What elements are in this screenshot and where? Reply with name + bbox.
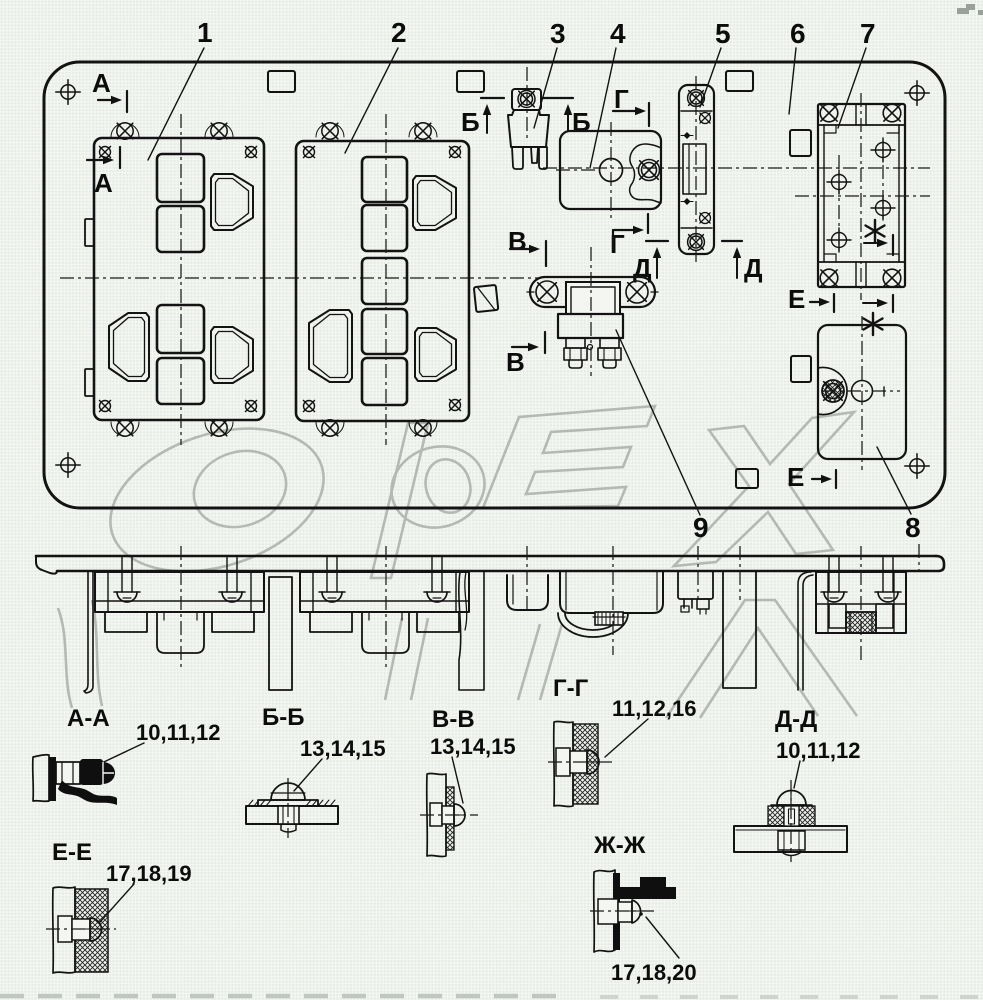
- svg-text:3: 3: [550, 18, 566, 49]
- svg-text:Д: Д: [633, 253, 652, 283]
- svg-text:5: 5: [715, 18, 731, 49]
- svg-text:9: 9: [693, 512, 709, 543]
- svg-text:Б: Б: [572, 107, 591, 137]
- svg-text:10,11,12: 10,11,12: [776, 738, 860, 763]
- svg-text:В: В: [508, 226, 527, 256]
- svg-text:Г-Г: Г-Г: [553, 675, 589, 702]
- svg-text:Г: Г: [614, 84, 629, 114]
- svg-text:7: 7: [860, 18, 876, 49]
- svg-text:В: В: [506, 347, 525, 377]
- svg-text:17,18,20: 17,18,20: [611, 960, 697, 985]
- svg-text:Е: Е: [787, 462, 804, 492]
- svg-text:Д-Д: Д-Д: [775, 706, 817, 733]
- svg-text:13,14,15: 13,14,15: [300, 736, 386, 761]
- svg-text:Е: Е: [788, 284, 805, 314]
- svg-text:17,18,19: 17,18,19: [106, 861, 192, 886]
- svg-text:11,12,16: 11,12,16: [612, 696, 696, 721]
- svg-text:2: 2: [391, 17, 407, 48]
- svg-text:6: 6: [790, 18, 806, 49]
- svg-text:Е-Е: Е-Е: [52, 839, 92, 866]
- svg-text:Б: Б: [461, 107, 480, 137]
- svg-text:8: 8: [905, 512, 921, 543]
- svg-text:А: А: [94, 168, 113, 198]
- svg-text:1: 1: [197, 17, 213, 48]
- svg-text:А: А: [92, 68, 111, 98]
- svg-text:4: 4: [610, 18, 626, 49]
- svg-text:Б-Б: Б-Б: [262, 704, 305, 731]
- svg-text:Д: Д: [744, 253, 763, 283]
- svg-text:13,14,15: 13,14,15: [430, 734, 516, 759]
- svg-text:А-А: А-А: [67, 705, 110, 732]
- svg-text:10,11,12: 10,11,12: [136, 720, 220, 745]
- svg-text:Ж-Ж: Ж-Ж: [593, 832, 646, 859]
- svg-text:В-В: В-В: [432, 706, 475, 733]
